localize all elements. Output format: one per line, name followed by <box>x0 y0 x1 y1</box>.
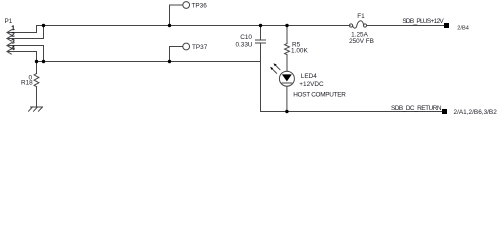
svg-text:R18: R18 <box>21 80 33 87</box>
connector P1 pin 4 <box>7 49 37 62</box>
junction node: pin4+R18 / middle rail <box>35 60 38 63</box>
svg-text:TP37: TP37 <box>192 44 208 51</box>
off-page terminal square SDB_DC_RETURN <box>442 109 447 114</box>
test point TP37 <box>170 43 190 61</box>
svg-text:TP36: TP36 <box>192 2 208 9</box>
svg-text:250V FB: 250V FB <box>349 38 374 45</box>
svg-text:3: 3 <box>11 39 15 45</box>
svg-text:2: 2 <box>11 33 15 39</box>
junction node: C10 / top rail <box>259 24 262 27</box>
svg-text:0.33U: 0.33U <box>235 41 252 48</box>
ground (chassis) <box>29 107 43 111</box>
test point TP36 <box>170 2 190 26</box>
junction node: TP36 / top rail <box>168 24 171 27</box>
svg-text:LED4: LED4 <box>301 73 317 80</box>
svg-text:2/B4: 2/B4 <box>457 26 469 32</box>
wire bottom rail <box>261 62 443 112</box>
junction node: pin2 / top rail <box>42 24 45 27</box>
svg-text:1.00K: 1.00K <box>291 47 308 54</box>
svg-text:1: 1 <box>11 26 15 32</box>
svg-text:P1: P1 <box>5 18 13 25</box>
svg-text:2/A1,2/B6,3/B2: 2/A1,2/B6,3/B2 <box>454 109 498 116</box>
svg-text:SDB_DC_RETURN: SDB_DC_RETURN <box>391 105 442 112</box>
svg-text:+12VDC: +12VDC <box>299 81 324 88</box>
junction node: TP37 / middle rail <box>168 60 171 63</box>
junction node: R5 / top rail <box>285 24 288 27</box>
junction node: pin3 / middle rail <box>42 60 45 63</box>
connector P1 pin 1 <box>7 30 37 36</box>
resistor R5 <box>285 26 290 72</box>
connector P1 pin 3 <box>7 43 44 62</box>
wire top rail <box>37 26 351 33</box>
capacitor C10 <box>256 26 266 62</box>
wire top rail right of fuse <box>367 25 444 27</box>
connector P1 pin 2 <box>7 26 44 42</box>
off-page terminal square SDB_PLUS+12V <box>444 23 449 28</box>
wire middle rail <box>37 61 261 63</box>
svg-text:C10: C10 <box>240 34 252 41</box>
svg-text:HOST COMPUTER: HOST COMPUTER <box>293 92 346 99</box>
svg-text:SDB_PLUS+12V: SDB_PLUS+12V <box>402 18 444 25</box>
junction node: LED4 / bottom rail <box>285 110 288 113</box>
fuse F1 <box>349 21 366 28</box>
resistor R18 <box>34 62 39 108</box>
svg-text:F1: F1 <box>357 13 365 20</box>
LED LED4 <box>270 63 294 111</box>
